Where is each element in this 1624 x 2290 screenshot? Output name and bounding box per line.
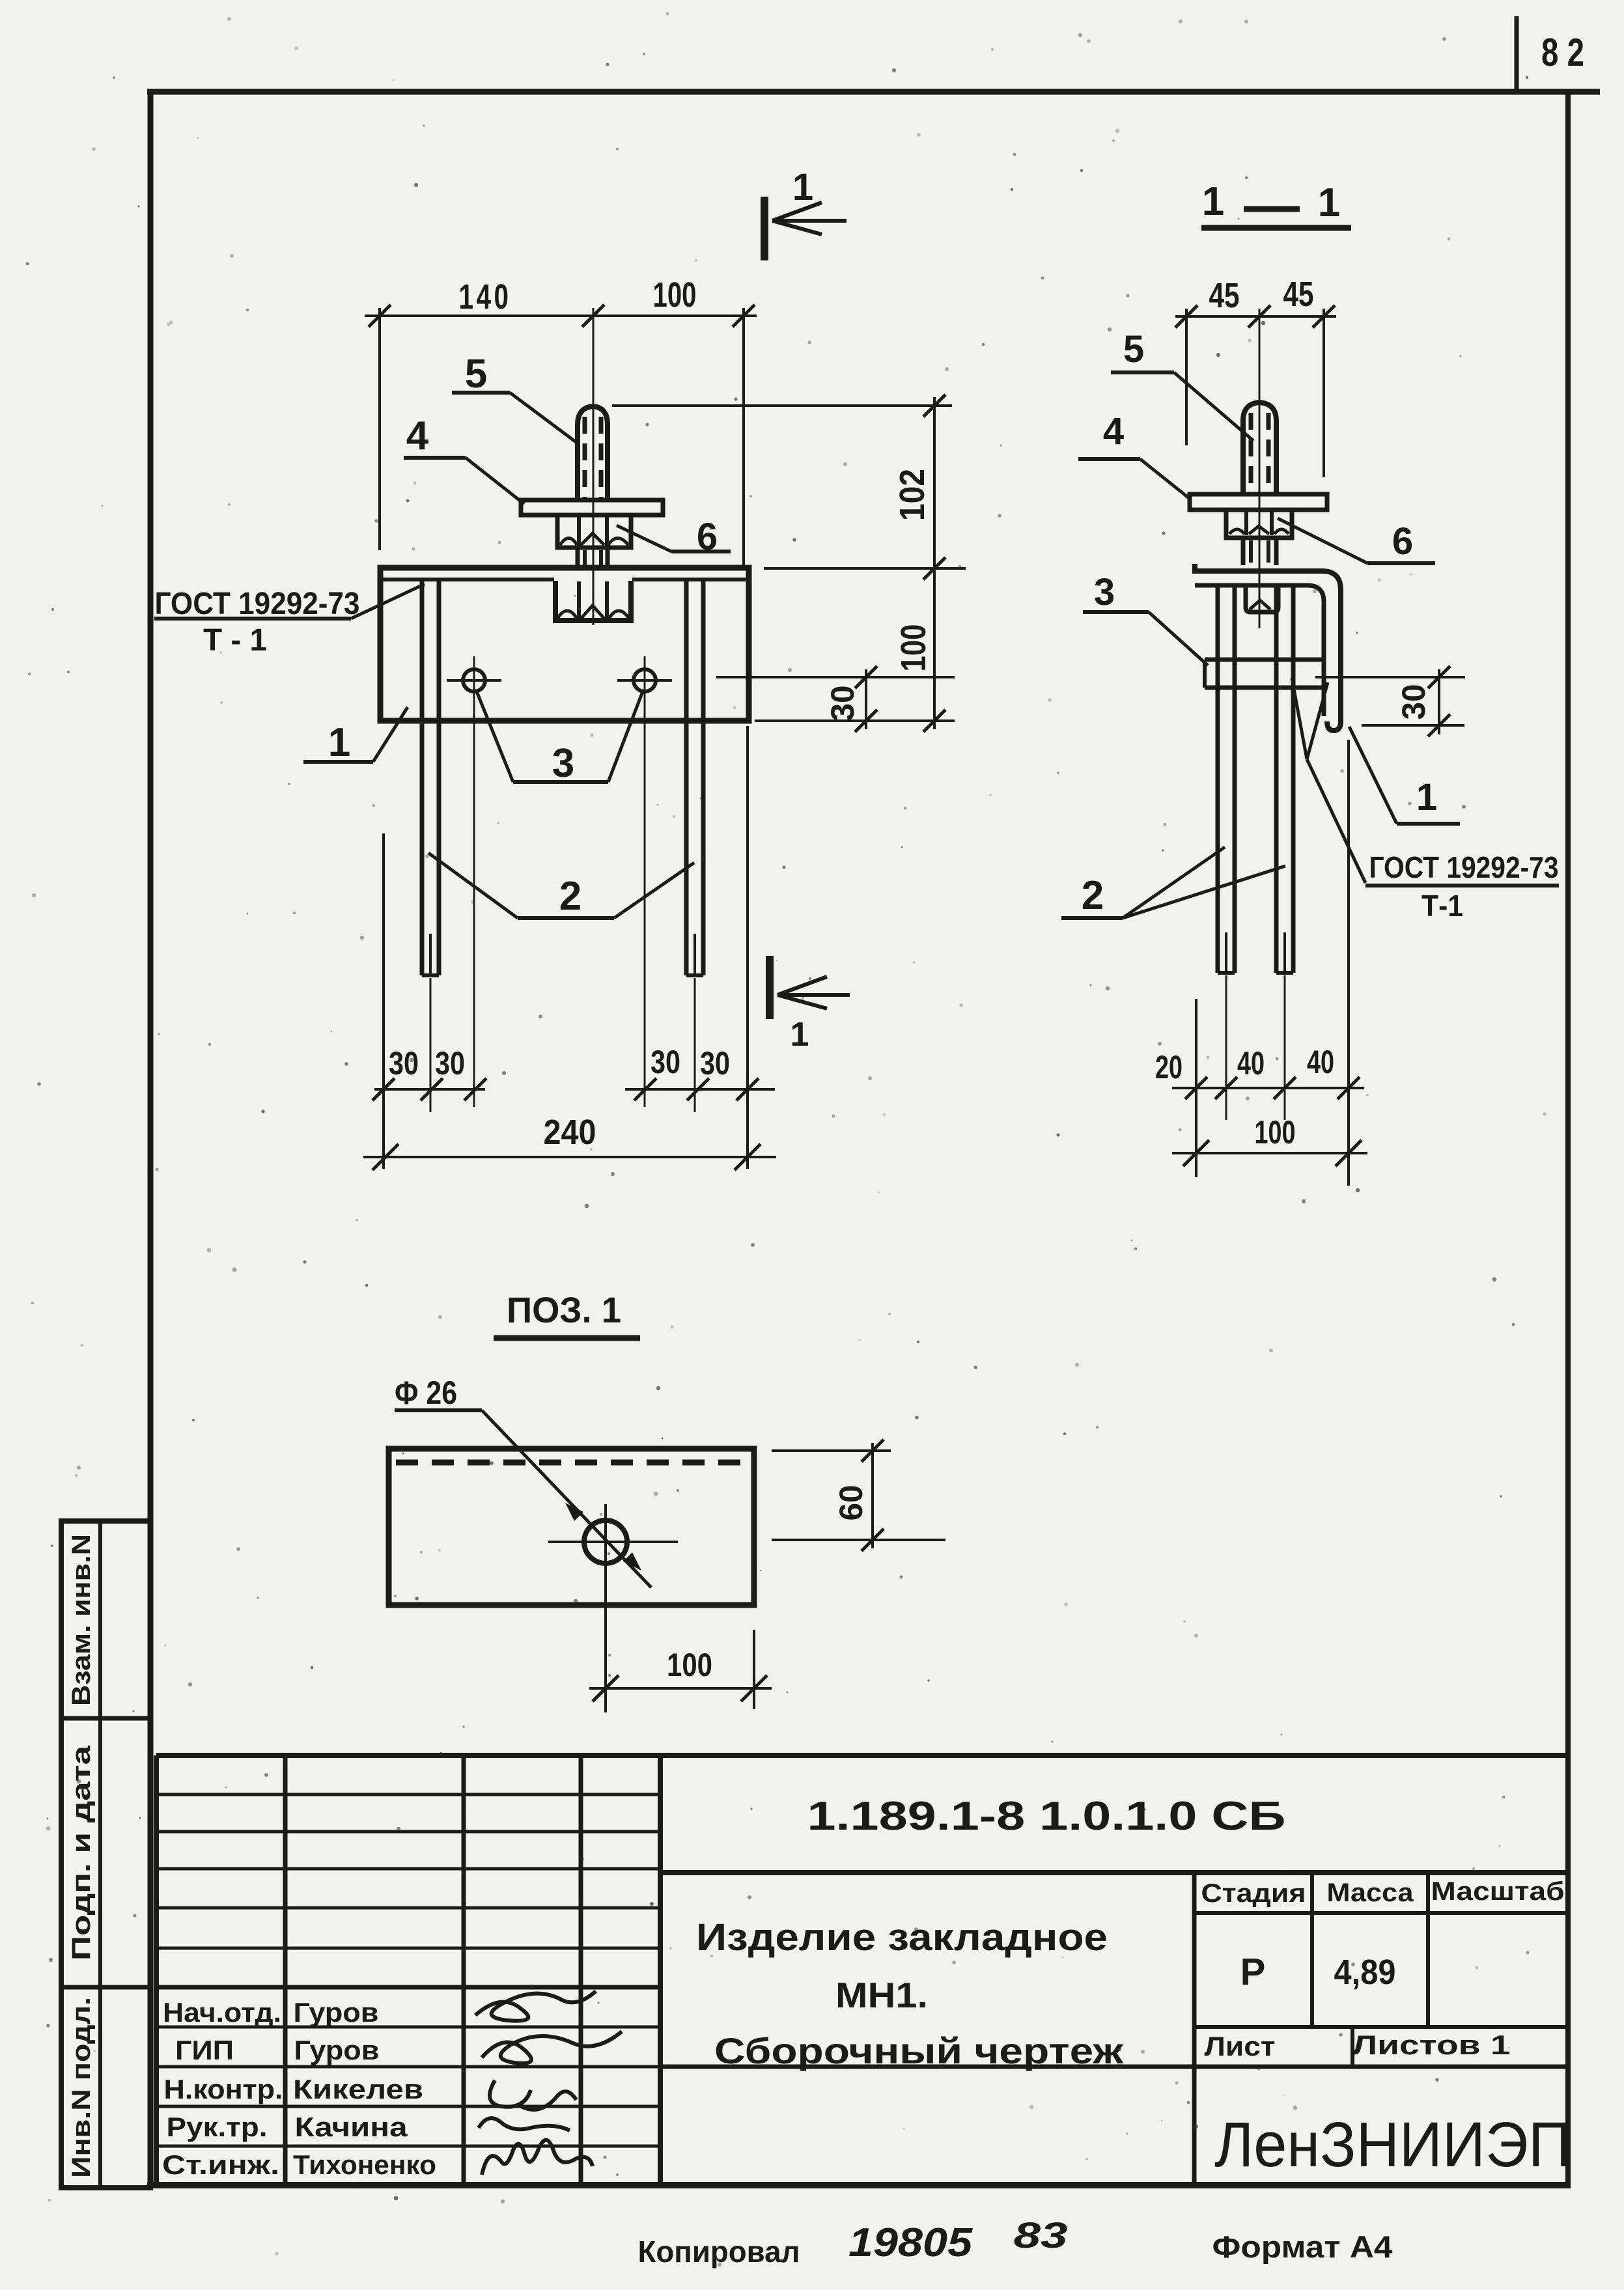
dim 240 front	[363, 1156, 776, 1158]
svg-text:Т - 1: Т - 1	[203, 623, 267, 658]
channel flange inner line front	[383, 578, 554, 581]
left strip frame	[61, 1521, 150, 2188]
page number cell top right	[1515, 16, 1519, 92]
bolt head section under flange	[1246, 587, 1278, 612]
title block revision rows	[156, 1793, 660, 1796]
hole left front	[463, 669, 485, 691]
svg-text:Взам. инв.N: Взам. инв.N	[67, 1534, 96, 1706]
svg-text:45: 45	[1209, 276, 1240, 315]
bolt head under flange front	[555, 581, 631, 621]
svg-text:45: 45	[1283, 275, 1314, 314]
plate bend dashed line	[396, 1460, 743, 1466]
bolt 5 shank front	[578, 406, 608, 500]
svg-text:1: 1	[792, 166, 813, 208]
title block left table verticals	[154, 1755, 159, 2185]
svg-text:МН1.: МН1.	[835, 1975, 928, 2015]
svg-text:4: 4	[1103, 410, 1124, 453]
svg-text:Тихоненко: Тихоненко	[293, 2149, 436, 2180]
svg-text:30: 30	[435, 1045, 465, 1082]
bar 3 centerline extension right	[1315, 676, 1465, 678]
svg-text:Гуров: Гуров	[294, 1997, 379, 2028]
svg-text:Т-1: Т-1	[1421, 889, 1463, 923]
svg-text:Кикелев: Кикелев	[293, 2074, 423, 2104]
drawing frame border	[147, 89, 1600, 95]
washer 4 section	[1190, 494, 1327, 510]
svg-text:Инв.N подл.: Инв.N подл.	[67, 1997, 96, 2178]
dim 30 section right	[1362, 724, 1464, 727]
hole right front	[634, 669, 656, 691]
svg-text:Гуров: Гуров	[294, 2035, 380, 2065]
svg-text:8 2: 8 2	[1541, 31, 1584, 74]
title block divider under designation	[660, 1870, 1568, 1875]
svg-text:Изделие закладное: Изделие закладное	[696, 1916, 1108, 1959]
svg-text:ГОСТ 19292-73: ГОСТ 19292-73	[1369, 850, 1559, 884]
svg-text:Р: Р	[1240, 1951, 1266, 1993]
dim 30/30 left group front	[374, 1088, 485, 1091]
signatures scribbles	[475, 1991, 622, 2175]
bolt 5 shank section	[1243, 402, 1276, 494]
svg-text:Нач.отд.: Нач.отд.	[163, 1997, 281, 2028]
svg-text:30: 30	[824, 686, 861, 721]
svg-text:102: 102	[893, 469, 932, 521]
svg-text:Стадия: Стадия	[1201, 1879, 1306, 1908]
line under Сборочный чертеж	[660, 2065, 1194, 2069]
section mark bottom (cut plane 1)	[766, 956, 774, 1019]
plate поз.1 detail rectangle	[389, 1449, 754, 1605]
ext line channel left top	[378, 308, 381, 550]
svg-text:1.189.1-8 1.0.1.0 СБ: 1.189.1-8 1.0.1.0 СБ	[807, 1794, 1286, 1839]
hole right centerline extension to right	[716, 676, 955, 678]
svg-text:240: 240	[544, 1113, 596, 1152]
svg-text:19805: 19805	[848, 2220, 973, 2265]
dim 60 detail	[772, 1449, 891, 1452]
svg-text:1: 1	[1202, 179, 1224, 224]
svg-text:1: 1	[328, 720, 350, 765]
right dim column: ext lines	[612, 404, 952, 407]
svg-text:ГОСТ 19292-73: ГОСТ 19292-73	[155, 587, 360, 621]
bar 3 across legs section	[1205, 658, 1324, 662]
leg centerline extensions front	[430, 978, 432, 1112]
svg-text:Н.контр.: Н.контр.	[164, 2074, 283, 2104]
svg-text:30: 30	[651, 1044, 680, 1080]
bottom dims section: ext lines	[1195, 999, 1197, 1177]
bolt centerline front	[593, 308, 595, 625]
svg-text:60: 60	[833, 1485, 869, 1521]
svg-text:4,89: 4,89	[1334, 1953, 1396, 1992]
ext line channel right top	[742, 308, 745, 566]
svg-text:100: 100	[1255, 1114, 1296, 1151]
svg-text:1: 1	[791, 1016, 809, 1054]
leg 2 right front	[684, 581, 689, 975]
ext lines 45/45	[1185, 309, 1188, 445]
svg-text:2: 2	[1082, 873, 1104, 918]
dim line 30 vertical right	[865, 669, 867, 729]
leg 2 left front	[420, 581, 425, 975]
svg-text:140: 140	[459, 277, 512, 316]
channel поз.1 section (bent plate)	[1195, 564, 1341, 731]
dim line 20/40/40	[1172, 1087, 1364, 1089]
leg 2 right section	[1274, 587, 1279, 973]
svg-text:Ф 26: Ф 26	[395, 1375, 457, 1411]
svg-text:Качина: Качина	[295, 2112, 408, 2142]
leg 2 left section	[1216, 587, 1220, 973]
hole Ф26 detail	[584, 1520, 627, 1563]
svg-text:Рук.тр.: Рук.тр.	[167, 2112, 268, 2142]
svg-text:Лист: Лист	[1205, 2031, 1276, 2061]
svg-text:3: 3	[552, 741, 574, 786]
svg-text:100: 100	[667, 1647, 712, 1683]
svg-text:100: 100	[894, 624, 933, 672]
стадия масса масштаб header	[1194, 1911, 1568, 1915]
svg-text:1: 1	[1318, 180, 1340, 225]
bolt shank below nut section	[1241, 538, 1246, 565]
dim line 102/100 vertical	[933, 397, 936, 729]
dim line top 140/100	[365, 314, 757, 317]
svg-text:Масштаб: Масштаб	[1431, 1877, 1565, 1906]
svg-text:ЛенЗНИИЭП: ЛенЗНИИЭП	[1214, 2109, 1571, 2180]
channel поз.1 front outline	[380, 568, 749, 721]
svg-text:4: 4	[406, 413, 429, 458]
svg-text:ГИП: ГИП	[175, 2035, 234, 2065]
nut 6 section	[1226, 510, 1292, 538]
nut 6 front	[557, 515, 631, 548]
svg-text:40: 40	[1307, 1044, 1334, 1080]
лист row	[1194, 2025, 1568, 2029]
svg-text:ПОЗ. 1: ПОЗ. 1	[507, 1289, 621, 1330]
channel edge extensions front	[382, 833, 385, 1169]
title block staff rows	[156, 2026, 660, 2029]
svg-text:83: 83	[1014, 2214, 1068, 2255]
section mark top (cut plane 1)	[761, 197, 768, 260]
svg-text:2: 2	[559, 874, 581, 919]
dim line 100 section	[1172, 1152, 1367, 1154]
washer 4 front	[521, 500, 663, 515]
svg-text:Масса: Масса	[1327, 1878, 1414, 1907]
svg-text:Ст.инж.: Ст.инж.	[162, 2149, 279, 2180]
svg-text:30: 30	[389, 1045, 419, 1082]
title name cell divider	[1192, 1873, 1197, 2185]
svg-text:5: 5	[1123, 328, 1144, 370]
svg-text:Листов 1: Листов 1	[1352, 2030, 1511, 2060]
svg-text:1: 1	[1416, 776, 1437, 818]
svg-text:3: 3	[1094, 571, 1115, 613]
svg-text:40: 40	[1237, 1045, 1265, 1082]
svg-text:5: 5	[465, 352, 487, 397]
title block outer top line	[156, 1753, 1568, 1758]
svg-text:30: 30	[1395, 684, 1432, 720]
dim 100 detail	[589, 1687, 772, 1690]
dim 30/30 right group front	[625, 1088, 775, 1091]
svg-text:6: 6	[1392, 520, 1413, 563]
svg-text:30: 30	[700, 1045, 730, 1082]
bolt centerline section	[1259, 309, 1261, 628]
svg-text:20: 20	[1155, 1049, 1183, 1085]
svg-text:Подп. и дата: Подп. и дата	[67, 1745, 96, 1961]
dim line 45/45	[1175, 315, 1336, 318]
bolt shank below nut front	[576, 548, 580, 568]
svg-text:100: 100	[653, 275, 697, 314]
svg-text:Формат А4: Формат А4	[1212, 2229, 1393, 2264]
